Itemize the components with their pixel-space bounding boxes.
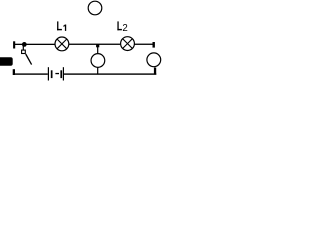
wire: bottom rail left terminal tick: [13, 69, 15, 75]
label L1: [57, 21, 66, 31]
meter blank circle (right): [147, 53, 161, 67]
lamp L1: [55, 37, 69, 51]
wire: switch drop stub: [23, 44, 24, 50]
switch S1 blade (open): [26, 54, 32, 65]
node: junction dot at switch branch: [22, 42, 27, 47]
node: junction dot mid (meter branch): [96, 44, 99, 47]
switch S1 fixed contact (hollow square): [22, 50, 26, 53]
lamp L2: [121, 37, 135, 51]
wire: top rail right terminal tick: [153, 42, 155, 48]
wire: battery mid link: [55, 73, 59, 74]
label L2: [117, 21, 127, 34]
svg-text:2: 2: [122, 23, 127, 34]
cropped margin artifact (left edge blob): [0, 57, 13, 66]
meter blank circle (top-center): [88, 1, 102, 15]
wire: bottom rail left segment: [14, 73, 48, 74]
wire: top rail left segment: [14, 44, 55, 45]
wire: top rail left terminal tick: [13, 41, 15, 48]
battery B1 cell2 long plate (+): [63, 67, 64, 80]
background: [0, 0, 166, 87]
battery B1 cell1 short plate (-): [51, 70, 53, 78]
wire: meter branch upper stub: [97, 47, 98, 53]
wire: top rail right segment: [134, 44, 153, 45]
battery B1 cell2 short plate (-): [60, 70, 62, 78]
wire: bottom rail right terminal tick: [154, 68, 156, 75]
wire: top rail middle segment: [69, 44, 121, 45]
wire: meter branch lower stub: [97, 68, 98, 74]
wire: bottom rail right segment: [64, 73, 156, 74]
battery B1 cell1 long plate (+): [48, 67, 49, 80]
meter blank circle (bottom-center): [91, 54, 105, 68]
